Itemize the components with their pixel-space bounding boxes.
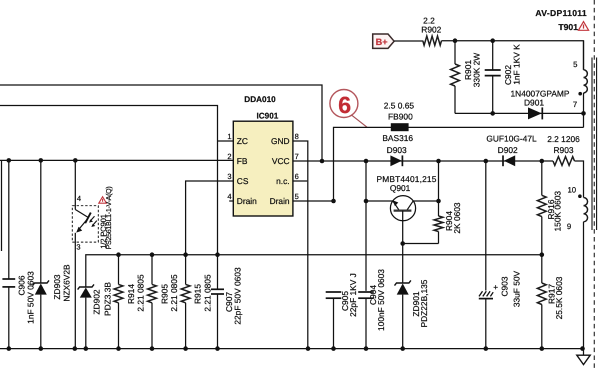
svg-text:9: 9 <box>567 222 571 231</box>
phase dot secondary <box>578 194 582 198</box>
node ZD903 top <box>39 158 44 163</box>
svg-text:R902: R902 <box>421 24 441 34</box>
wire FB rail left (pin 2) <box>0 159 233 161</box>
zener ZD901 PDZ22B,135 <box>395 280 411 285</box>
node ground R917 <box>540 346 545 351</box>
svg-text:8: 8 <box>295 132 299 141</box>
wire ZC rail left <box>0 106 218 255</box>
capacitor C902 <box>492 41 494 70</box>
svg-text:GND: GND <box>271 136 290 146</box>
transistor Q901 PMBT4401,215 <box>390 196 415 221</box>
node D903 cathode junction <box>436 159 441 164</box>
svg-text:150K 0603: 150K 0603 <box>553 191 563 232</box>
resistor R916 <box>541 161 543 195</box>
page boundary dashed line <box>593 0 595 370</box>
svg-text:BAS316: BAS316 <box>382 133 413 143</box>
wire left edge stub <box>1 160 3 251</box>
phase dot primary <box>578 92 582 96</box>
node ground C904 <box>364 346 369 351</box>
transformer T901 primary winding pins 5-7 <box>583 41 585 70</box>
wire emitter drop / C904 branch <box>365 161 367 291</box>
svg-text:Drain: Drain <box>237 196 257 206</box>
svg-text:2.5 0.65: 2.5 0.65 <box>384 100 415 110</box>
warning triangle T901 <box>578 22 588 31</box>
wire D903 junction drop <box>438 161 440 216</box>
wire snubber bottom line <box>455 112 584 114</box>
resistor R901 <box>454 41 456 64</box>
zener ZD903 NZX6V2B <box>40 160 42 283</box>
capacitor C905 <box>326 291 342 293</box>
node VCC to emitter drop <box>364 159 369 164</box>
wire VCC line pin 7 <box>293 160 553 162</box>
IC901 DDA010 body <box>233 121 293 216</box>
svg-text:T901: T901 <box>558 22 578 32</box>
wire pin 5 Drain stub <box>293 200 334 202</box>
warning triangle PC901 <box>99 197 107 204</box>
capacitor C904 <box>358 291 374 293</box>
resistor R915 <box>185 255 187 285</box>
svg-text:Q901: Q901 <box>390 183 411 193</box>
optocoupler PC901 <box>72 206 98 242</box>
node ground C907 <box>215 346 220 351</box>
svg-text:4: 4 <box>77 194 81 203</box>
svg-text:PDZ22B,135: PDZ22B,135 <box>419 279 429 327</box>
wire pin 6 stub <box>293 180 307 182</box>
ground symbol <box>583 349 585 355</box>
svg-text:PS2561BL1-1-V-A(Q): PS2561BL1-1-V-A(Q) <box>105 187 113 250</box>
svg-text:PDZ3.3B: PDZ3.3B <box>103 282 113 316</box>
wire B+ line <box>394 40 423 42</box>
transformer core lines <box>591 58 593 231</box>
svg-text:+: + <box>493 283 498 292</box>
svg-text:1: 1 <box>227 132 231 141</box>
svg-text:2.21 0805: 2.21 0805 <box>136 274 146 312</box>
node ground T901 pin 9 <box>580 346 585 351</box>
resistor R914 <box>118 255 120 285</box>
svg-text:VCC: VCC <box>272 156 290 166</box>
svg-text:NZX6V2B: NZX6V2B <box>62 264 72 302</box>
svg-text:22pF 1KV J: 22pF 1KV J <box>348 273 358 317</box>
diode D901 1N4007GPAMP <box>528 107 542 119</box>
capacitor C903 electrolytic <box>485 161 487 291</box>
node R905 top <box>150 252 155 257</box>
node ground ZD901 <box>400 346 405 351</box>
svg-text:R915: R915 <box>192 284 202 304</box>
svg-text:D903: D903 <box>387 145 407 155</box>
svg-text:3: 3 <box>227 172 231 181</box>
node ground C903 <box>484 346 489 351</box>
svg-text:GUF10G-47L: GUF10G-47L <box>486 134 537 144</box>
svg-text:100nF 50V 0603: 100nF 50V 0603 <box>376 269 386 331</box>
svg-text:R905: R905 <box>159 284 169 304</box>
wire pin 4 stub <box>229 200 233 202</box>
resistor R902 <box>423 36 442 45</box>
node R916 R917 junction <box>540 252 545 257</box>
node ground C906 <box>7 346 12 351</box>
resistor R917 <box>541 255 543 283</box>
svg-text:2: 2 <box>227 152 231 161</box>
node ground ZD902 <box>84 346 89 351</box>
svg-text:DDA010: DDA010 <box>244 95 276 104</box>
svg-text:Drain: Drain <box>270 196 290 206</box>
B+ supply arrow <box>373 34 394 48</box>
svg-text:7: 7 <box>573 100 577 109</box>
node ground R915 <box>183 346 188 351</box>
node C902 top <box>490 38 495 43</box>
wire CS rail <box>86 255 542 287</box>
svg-text:6: 6 <box>295 172 299 181</box>
node R904 top collector junction <box>436 199 441 204</box>
resistor R904 <box>434 216 443 232</box>
node FB900 drop to drain line <box>331 199 336 204</box>
circled 6 callout <box>330 90 358 118</box>
wire Q901 collector to R904 <box>413 200 438 202</box>
wire B+ line to transformer <box>442 41 584 70</box>
node emitter line <box>364 199 369 204</box>
capacitor C907 <box>217 255 219 290</box>
node VCC rail to pin 7 junction <box>320 159 325 164</box>
node ground C905 <box>331 346 336 351</box>
svg-text:2.21 0805: 2.21 0805 <box>203 274 213 312</box>
svg-text:ZD903: ZD903 <box>52 274 62 299</box>
svg-text:10: 10 <box>567 186 576 195</box>
node base R904 junction <box>400 241 405 246</box>
svg-text:AV-DP11011: AV-DP11011 <box>535 8 587 18</box>
node C903 top <box>484 159 489 164</box>
svg-text:2.21 0805: 2.21 0805 <box>169 274 179 312</box>
svg-text:IC901: IC901 <box>256 111 278 120</box>
zener ZD902 PDZ3.3B <box>78 284 94 289</box>
node C902 bottom <box>490 111 495 116</box>
svg-text:CS: CS <box>237 176 249 186</box>
wire pin 8 GND stub and drop <box>293 141 308 349</box>
ferrite bead FB900 <box>391 123 409 131</box>
svg-text:33uF 50V: 33uF 50V <box>512 270 522 307</box>
svg-text:4: 4 <box>227 192 231 201</box>
svg-text:D902: D902 <box>498 145 518 155</box>
wire VCC rail left <box>0 85 322 161</box>
svg-text:3: 3 <box>76 242 80 251</box>
svg-text:B+: B+ <box>376 37 388 47</box>
node transformer pin 7 junction <box>581 111 586 116</box>
resistor R903 <box>553 157 575 166</box>
wire Q901 base down <box>402 211 404 283</box>
node R914 top <box>116 252 121 257</box>
svg-text:1nF 50V 0603: 1nF 50V 0603 <box>25 271 35 324</box>
node ground R905 <box>150 346 155 351</box>
node ground PC901 emitter <box>73 346 78 351</box>
node ground ZD903 <box>39 346 44 351</box>
svg-text:25.5K 0603: 25.5K 0603 <box>554 276 564 319</box>
svg-text:D901: D901 <box>524 98 544 108</box>
wire pin 3 CS stub and drop <box>186 181 234 255</box>
node R901 top <box>453 38 458 43</box>
wire R904 bottom to base <box>403 243 439 245</box>
node ground GND drop <box>306 346 311 351</box>
svg-text:2.2 1206: 2.2 1206 <box>547 134 580 144</box>
svg-text:n.c.: n.c. <box>276 176 290 186</box>
node C907 top / ZC drop <box>215 252 220 257</box>
diode D902 GUF10G-47L <box>504 155 515 166</box>
wire pin 1 ZC stub <box>218 140 234 142</box>
svg-text:330K 2W: 330K 2W <box>472 53 482 88</box>
node C906 top <box>7 158 12 163</box>
svg-text:6: 6 <box>338 92 351 118</box>
svg-text:ZC: ZC <box>237 136 248 146</box>
svg-text:ZD902: ZD902 <box>92 289 102 314</box>
svg-text:5: 5 <box>573 60 578 69</box>
node ground R914 <box>116 346 121 351</box>
svg-text:7: 7 <box>295 152 299 161</box>
wire ground rail <box>0 348 583 350</box>
capacitor C906 <box>8 160 10 279</box>
diode D903 BAS316 <box>390 155 401 166</box>
wire FB900 line <box>334 127 584 201</box>
svg-text:5: 5 <box>295 192 299 201</box>
node R916 top <box>540 159 545 164</box>
node PC901 collector <box>73 158 78 163</box>
transformer T901 secondary winding pins 10-9 <box>584 198 588 222</box>
svg-text:1nF 1KV K: 1nF 1KV K <box>511 44 521 85</box>
svg-text:FB900: FB900 <box>388 111 413 121</box>
svg-text:FB: FB <box>237 156 248 166</box>
node R915 top / CS pin drop <box>183 252 188 257</box>
svg-text:22pF 50V 0603: 22pF 50V 0603 <box>232 267 242 325</box>
svg-text:2K 0603: 2K 0603 <box>452 202 462 234</box>
svg-text:R903: R903 <box>553 145 573 155</box>
svg-text:R914: R914 <box>126 284 136 304</box>
svg-text:C903: C903 <box>499 276 509 296</box>
resistor R905 <box>151 255 153 285</box>
